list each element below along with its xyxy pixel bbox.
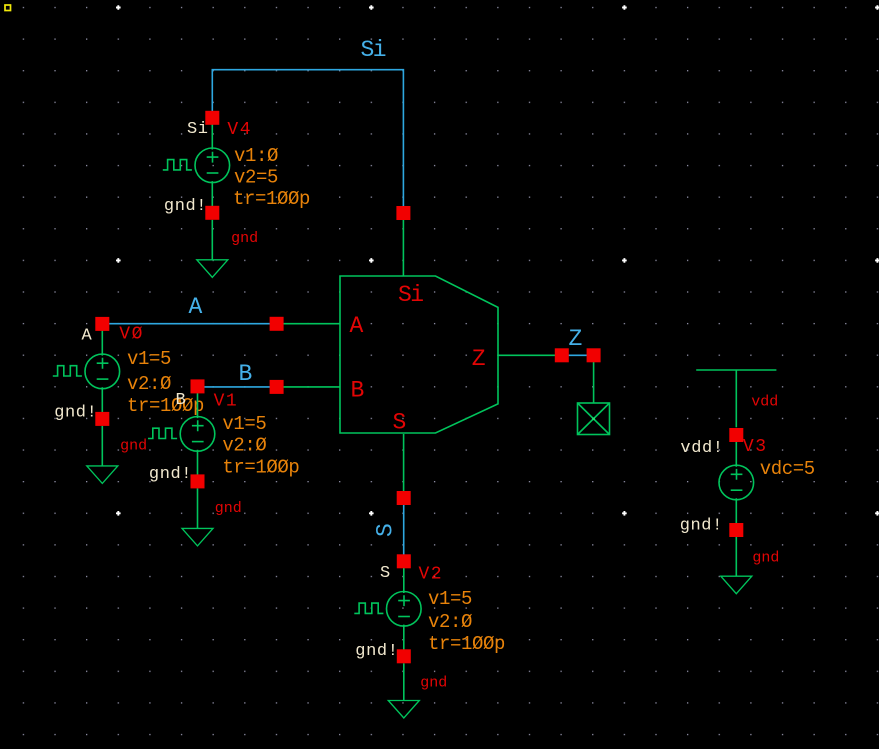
svg-text:A: A (189, 294, 203, 320)
pin square V1 plus terminal (191, 379, 205, 393)
mux I5 symbol body (340, 276, 498, 433)
svg-text:gnd!: gnd! (680, 517, 723, 536)
svg-text:v1=5: v1=5 (127, 348, 171, 370)
pin square junction S net (397, 491, 411, 505)
ground symbol below V0 (87, 426, 118, 484)
svg-text:gnd: gnd (215, 500, 242, 517)
wire Z to noConn (593, 355, 595, 403)
svg-text:gnd: gnd (231, 230, 258, 247)
svg-text:vdc=5: vdc=5 (760, 458, 815, 480)
voltage source V1 symbol (148, 386, 215, 481)
svg-text:v1:Ø: v1:Ø (234, 145, 278, 167)
svg-text:gnd: gnd (752, 550, 779, 567)
voltage source V0 symbol (53, 324, 120, 419)
svg-text:gnd!: gnd! (149, 465, 192, 484)
svg-text:v2=5: v2=5 (234, 166, 278, 188)
pin square V2 plus terminal (397, 554, 411, 568)
svg-text:tr=1ØØp: tr=1ØØp (428, 633, 505, 655)
vdd supply bar symbol (696, 370, 776, 427)
wire net S (403, 498, 405, 561)
svg-text:gnd!: gnd! (54, 403, 97, 422)
svg-text:gnd!: gnd! (164, 197, 207, 216)
wire Si stub to mux (402, 213, 404, 276)
pin square V1 minus terminal (191, 474, 205, 488)
pin square V4 plus terminal (205, 111, 219, 125)
svg-text:tr=1ØØp: tr=1ØØp (233, 188, 310, 210)
pin square Z output (555, 348, 569, 362)
noConn symbol on Z (578, 403, 610, 435)
svg-text:Si: Si (398, 282, 423, 308)
svg-text:S: S (393, 410, 406, 436)
pin square V0 plus terminal (95, 317, 109, 331)
svg-text:V4: V4 (227, 120, 252, 140)
pin square Z to noConn (587, 348, 601, 362)
pin square junction Si net (396, 206, 410, 220)
svg-text:v2:Ø: v2:Ø (127, 373, 171, 395)
svg-text:V2: V2 (419, 565, 444, 585)
svg-text:B: B (176, 391, 187, 410)
svg-text:v2:Ø: v2:Ø (222, 435, 266, 457)
pin square V0 minus terminal (95, 412, 109, 426)
svg-text:V1: V1 (214, 392, 239, 412)
pin square junction B net (270, 380, 284, 394)
origin marker square (5, 5, 11, 11)
ground symbol below V1 (182, 488, 213, 546)
pin square V4 minus terminal (205, 206, 219, 220)
svg-text:S: S (373, 524, 399, 537)
svg-text:vdd!: vdd! (680, 439, 723, 458)
svg-text:gnd: gnd (420, 675, 447, 692)
wire net Si (212, 70, 403, 213)
svg-text:B: B (351, 378, 364, 404)
svg-text:B: B (239, 361, 252, 387)
svg-text:Si: Si (361, 37, 386, 63)
wire net B (198, 386, 277, 388)
svg-text:Z: Z (569, 326, 582, 352)
svg-text:V3: V3 (743, 437, 768, 457)
ground symbol below V3 (721, 537, 752, 594)
pin square V2 minus terminal (397, 649, 411, 663)
svg-text:gnd!: gnd! (355, 642, 398, 661)
wire A stub to mux (277, 323, 340, 325)
ground symbol below V2 (388, 663, 419, 718)
pin square junction A net (270, 317, 284, 331)
svg-text:A: A (82, 327, 93, 346)
svg-text:gnd: gnd (120, 438, 147, 455)
wire B stub to mux (277, 386, 340, 388)
svg-text:tr=1ØØp: tr=1ØØp (222, 457, 299, 479)
svg-text:v1=5: v1=5 (428, 588, 472, 610)
wire Z stub from mux (498, 354, 562, 356)
wire S stub to mux (403, 434, 405, 498)
svg-text:Z: Z (472, 346, 485, 372)
wire net Z (562, 354, 594, 356)
svg-text:vdd: vdd (751, 394, 778, 411)
svg-text:tr=1ØØp: tr=1ØØp (127, 395, 204, 417)
ground symbol below V4 (197, 220, 228, 277)
wire net A (102, 323, 276, 325)
svg-text:S: S (380, 564, 391, 583)
voltage source V4 symbol (163, 118, 230, 213)
svg-text:v1=5: v1=5 (222, 413, 266, 435)
voltage source V3 vdc symbol (719, 435, 754, 530)
voltage source V2 symbol (354, 561, 421, 656)
svg-text:VØ: VØ (119, 325, 144, 345)
svg-text:v2:Ø: v2:Ø (428, 611, 472, 633)
pin square V3 plus terminal (729, 428, 743, 442)
svg-text:A: A (350, 313, 364, 339)
pin square V3 minus terminal (729, 523, 743, 537)
svg-text:Si: Si (187, 120, 209, 139)
